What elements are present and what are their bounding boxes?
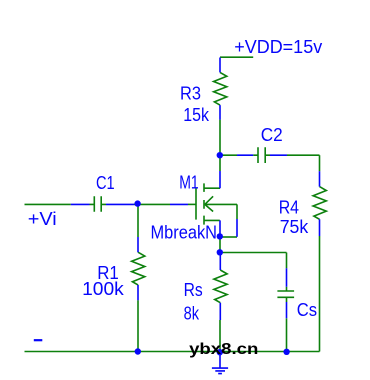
svg-text:C1: C1 — [96, 173, 115, 193]
svg-text:C2: C2 — [261, 125, 283, 145]
svg-text:75k: 75k — [280, 217, 309, 237]
svg-text:M1: M1 — [179, 173, 199, 193]
svg-text:100k: 100k — [82, 279, 125, 299]
svg-text:15k: 15k — [183, 105, 210, 125]
svg-text:Cs: Cs — [297, 300, 317, 320]
svg-text:MbreakN: MbreakN — [151, 222, 218, 242]
svg-text:8k: 8k — [184, 304, 200, 324]
svg-text:R4: R4 — [279, 198, 299, 218]
svg-text:R3: R3 — [180, 83, 201, 103]
svg-text:+Vi: +Vi — [28, 209, 57, 229]
svg-text:ybx8.cn: ybx8.cn — [189, 341, 258, 358]
svg-text:Rs: Rs — [184, 280, 203, 300]
svg-text:+VDD=15v: +VDD=15v — [234, 37, 322, 57]
